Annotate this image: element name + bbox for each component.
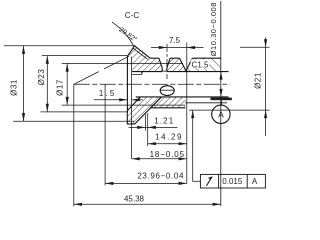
bottom teeth outline: [127, 97, 161, 124]
keyway line: [132, 73, 141, 75]
datum A filled triangle: [211, 98, 232, 101]
angular dimension arrowhead: [140, 69, 143, 75]
svg-text:A: A: [252, 177, 258, 186]
svg-text:45.38: 45.38: [124, 194, 145, 203]
dia31 dimension line with arrows: [23, 46, 25, 122]
cross hole left wall: [159, 58, 162, 70]
svg-text:Ø23: Ø23: [37, 69, 46, 86]
dim 1.5 right arrow: [132, 99, 143, 101]
bottom band left slant edge: [151, 97, 162, 108]
svg-text:23.96−0.04: 23.96−0.04: [137, 171, 184, 180]
dia31 top extension line: [4, 45, 136, 47]
23.96 left ext vertical: [104, 84, 106, 185]
groove bottom long extension line: [186, 43, 188, 184]
C1.5 chamfer label backing: [191, 60, 210, 68]
svg-text:Ø17: Ø17: [55, 79, 64, 96]
dia17 top extension line: [62, 62, 183, 64]
bore top line: [132, 71, 228, 73]
dia21 top ext (right): [240, 46, 270, 48]
tolerance frame box: [200, 174, 265, 188]
dia10.30 top ext stub: [212, 71, 229, 73]
teeth block second vertical edge (18 dim ext): [131, 57, 133, 159]
V relief groove left flank: [180, 58, 187, 71]
datum circle: [212, 105, 230, 123]
svg-text:7.5: 7.5: [169, 36, 181, 45]
hatch: top bevel teeth block: [128, 46, 163, 72]
datum stem: [220, 100, 222, 105]
dia21 bottom ext (right), through datum area: [189, 109, 270, 111]
hatch: bottom band: [151, 97, 186, 108]
svg-text:14.29: 14.29: [155, 133, 183, 142]
svg-text:1.5: 1.5: [99, 89, 117, 98]
svg-text:A: A: [218, 110, 224, 120]
tolerance frame leader: [193, 111, 201, 182]
svg-text:18−0.05: 18−0.05: [150, 150, 185, 159]
dia17 bottom extension line: [62, 104, 186, 106]
bevel teeth front face: [128, 46, 135, 56]
dim 14.29 line with inside arrows: [148, 143, 187, 145]
chord line across hole circle: [160, 89, 175, 91]
bottom band bottom edge: [151, 107, 186, 109]
dia23 bottom extension line: [41, 111, 129, 113]
dim 23.96-0.04 line with inside arrows: [105, 182, 187, 184]
svg-text:Ø21: Ø21: [254, 72, 263, 89]
dim 45.38 line with inside arrows: [74, 203, 221, 205]
left apex extension line vertical: [73, 84, 75, 206]
top surface segment right of hole: [170, 57, 180, 59]
V relief groove right flank: [186, 58, 192, 71]
saddle line left of cross hole: [150, 57, 159, 59]
teeth block left vertical edge: [126, 55, 128, 110]
cross hole bottom arc: [162, 70, 167, 73]
cross hole far-wall circle: [160, 86, 174, 96]
right end face and dia10.30 dim line above: [220, 1, 222, 206]
svg-text:C1.5: C1.5: [192, 61, 209, 70]
dim 1.5 left arrow: [94, 99, 128, 101]
dia17 dimension line with arrows: [66, 63, 68, 105]
bore bottom line: [136, 96, 229, 98]
hatch: bottom teeth block: [127, 97, 161, 124]
svg-text:Ø31: Ø31: [9, 79, 18, 96]
bevel teeth top face: [135, 46, 151, 58]
dim 7.5 line with outside arrows: [151, 47, 204, 49]
svg-text:0.015: 0.015: [222, 177, 243, 186]
hatch: top band between hole and groove: [167, 58, 186, 71]
runout symbol: [206, 177, 212, 186]
centerline of part axis: [74, 83, 230, 85]
pitch cone line (dashed diagonal): [74, 54, 133, 84]
cross hole centerline: [166, 44, 168, 79]
hatch: top band right of groove: [186, 58, 220, 71]
svg-text:C-C: C-C: [125, 11, 139, 20]
bottom step line right portion: [185, 102, 227, 104]
tooth tip land line: [133, 48, 148, 59]
dim 18-0.05 line with inside arrows: [132, 158, 187, 160]
cross hole right wall: [167, 58, 170, 70]
dia10.30 arrows on end face line: [219, 72, 222, 80]
angular dimension arc 29.82deg: [112, 22, 142, 74]
dia23 dimension line with arrows: [46, 56, 48, 112]
svg-text:29.82°: 29.82°: [117, 26, 138, 44]
top surface right of groove: [192, 57, 221, 59]
dia31 bottom extension line: [13, 120, 134, 122]
dim 1.21 ext lines: [145, 113, 147, 146]
dia23 top extension line: [42, 55, 128, 57]
dia21 dimension line segments with outside arrows: [265, 38, 267, 137]
svg-text:Ø10.30−0.008: Ø10.30−0.008: [209, 2, 218, 56]
dim 1.21 line with arrows: [129, 126, 178, 128]
svg-text:1.21: 1.21: [154, 116, 174, 125]
